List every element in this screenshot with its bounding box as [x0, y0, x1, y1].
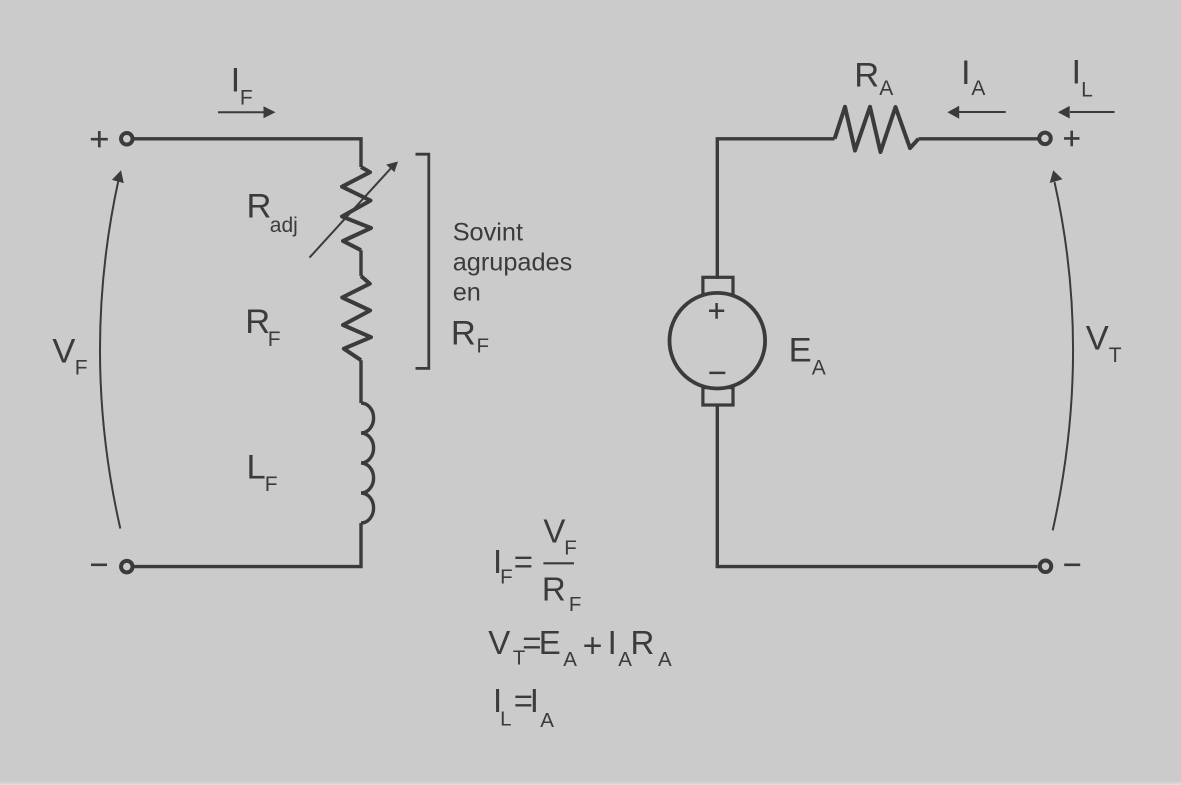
bracket (grouping Radj + RF)	[416, 154, 429, 368]
svg-text:R: R	[451, 314, 476, 352]
wire top left horizontal and right vertical down to Radj	[134, 139, 362, 167]
svg-text:V: V	[52, 333, 75, 371]
svg-text:I: I	[608, 624, 617, 661]
svg-text:A: A	[879, 77, 893, 100]
label IA	[961, 54, 985, 100]
wire motor bottom down and right to bottom-right terminal	[717, 404, 1037, 567]
svg-text:agrupades: agrupades	[453, 248, 573, 276]
wire bottom of LF down and bottom horizontal	[134, 523, 362, 567]
bottom edge highlight strip	[0, 781, 1181, 785]
svg-text:F: F	[265, 473, 278, 496]
label RF (grouped)	[451, 314, 489, 357]
svg-text:I: I	[1072, 53, 1082, 91]
brush (bottom rectangle of machine)	[703, 388, 733, 405]
svg-text:V: V	[1086, 320, 1109, 358]
terminal top-right	[1039, 133, 1051, 145]
machine EA (armature circle)	[670, 293, 766, 389]
svg-text:R: R	[854, 57, 879, 95]
label LF	[247, 448, 278, 496]
resistor RA zigzag	[835, 107, 919, 152]
equation IL = IA	[493, 682, 554, 732]
label IF	[231, 62, 253, 110]
svg-text:A: A	[812, 357, 826, 380]
svg-text:I: I	[231, 62, 241, 100]
wire from motor top up and right to RA	[717, 139, 834, 279]
label IL	[1072, 53, 1093, 101]
svg-text:A: A	[563, 648, 577, 671]
svg-text:V: V	[543, 512, 565, 549]
arrow VF (voltage arc, pointing up)	[100, 170, 124, 528]
svg-text:R: R	[247, 188, 272, 226]
arrow VT (voltage arc, pointing up)	[1050, 170, 1073, 530]
svg-text:V: V	[488, 624, 510, 661]
arrow IA (pointing left)	[947, 106, 1005, 119]
terminal bottom-right	[1040, 561, 1052, 573]
svg-text:E: E	[789, 332, 812, 370]
svg-text:E: E	[539, 624, 561, 661]
equation VT = EA + IA RA	[488, 624, 672, 671]
svg-text:L: L	[247, 448, 266, 486]
wire between Radj and RF	[359, 250, 362, 276]
svg-text:R: R	[542, 570, 566, 607]
note text Sovint agrupades en	[453, 218, 573, 306]
svg-text:F: F	[75, 356, 88, 379]
minus sign inside machine	[709, 372, 725, 375]
svg-text:L: L	[500, 708, 511, 731]
plus sign top-right	[1064, 131, 1080, 147]
label RA	[854, 57, 893, 101]
arrow IF (current direction right)	[218, 106, 276, 118]
svg-text:R: R	[245, 303, 270, 341]
label Radj	[247, 188, 298, 237]
terminal top-left	[121, 133, 133, 145]
svg-text:F: F	[564, 537, 577, 560]
equation IF = VF / RF	[493, 512, 581, 616]
resistor Radj (variable) zigzag	[342, 167, 371, 250]
label EA	[789, 332, 826, 380]
svg-text:T: T	[1109, 344, 1122, 367]
minus sign bottom-left	[91, 563, 107, 566]
inductor LF (4 bumps)	[361, 403, 374, 523]
svg-text:A: A	[540, 709, 554, 732]
svg-text:A: A	[658, 648, 672, 671]
svg-text:A: A	[971, 77, 985, 100]
svg-text:adj: adj	[270, 214, 298, 237]
wire RA to top-right terminal	[919, 137, 1038, 140]
svg-text:F: F	[500, 566, 513, 589]
svg-text:I: I	[961, 54, 971, 92]
label VT	[1086, 320, 1122, 367]
label VF	[52, 333, 87, 380]
svg-text:F: F	[240, 87, 253, 110]
svg-text:R: R	[631, 624, 655, 661]
minus sign bottom-right	[1064, 563, 1080, 566]
terminal bottom-left	[121, 561, 133, 573]
plus sign inside machine	[709, 303, 724, 319]
svg-text:Sovint: Sovint	[453, 218, 523, 246]
plus sign top-left	[91, 131, 108, 147]
svg-text:F: F	[477, 334, 490, 357]
svg-text:L: L	[1081, 78, 1093, 101]
label RF	[245, 303, 280, 351]
brush (top rectangle of machine)	[703, 277, 733, 294]
svg-text:en: en	[453, 278, 481, 306]
svg-text:I: I	[530, 682, 539, 719]
svg-text:=: =	[514, 543, 533, 580]
resistor RF zigzag	[342, 276, 371, 360]
arrow IL (pointing left)	[1058, 106, 1115, 119]
wire between RF and LF	[359, 360, 362, 403]
svg-text:F: F	[268, 328, 281, 351]
arrow through Radj (adjustable)	[310, 162, 399, 258]
svg-text:+: +	[583, 627, 603, 665]
svg-text:F: F	[569, 593, 582, 616]
